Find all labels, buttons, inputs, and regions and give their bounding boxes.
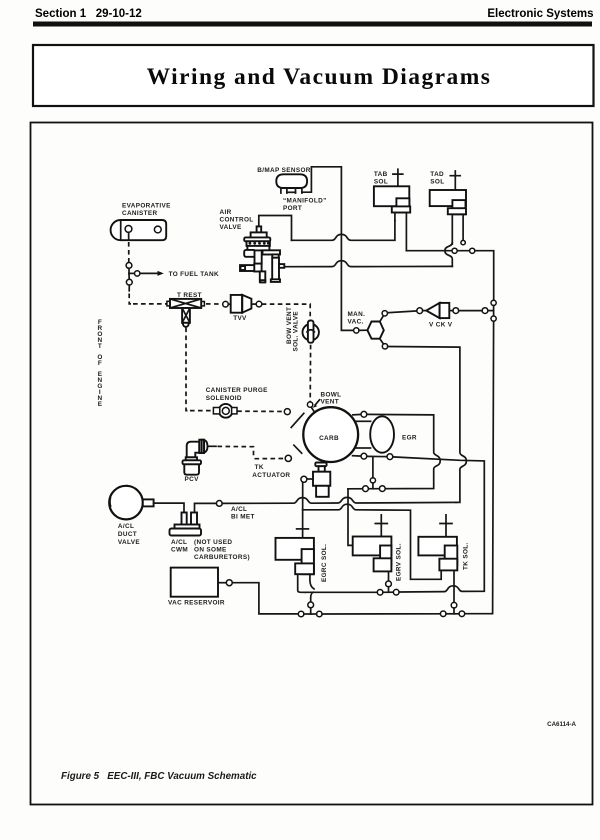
svg-text:TAB: TAB — [374, 171, 388, 178]
wire vckv node to bus node — [459, 310, 482, 312]
node circle reservoir — [226, 580, 232, 586]
wire cwm right prong to a/cl bi met line with hops — [195, 503, 217, 512]
svg-text:ON SOME: ON SOME — [194, 547, 227, 554]
v ck v check valve — [423, 303, 450, 318]
wire vckv to node — [449, 310, 453, 312]
wire node to tee — [128, 268, 130, 273]
wire egr bottom line to right corner down — [393, 457, 485, 591]
svg-text:ACTUATOR: ACTUATOR — [252, 472, 290, 479]
bottom bus segment 3 — [446, 613, 459, 615]
wire carb top line to right with corner down and hop — [348, 414, 440, 488]
wire tee to node — [128, 273, 130, 279]
wire bowl vent node to carb — [311, 407, 315, 412]
svg-text:A/CL: A/CL — [171, 539, 187, 546]
svg-text:TO FUEL TANK: TO FUEL TANK — [169, 271, 219, 278]
wire tk actuator left port — [307, 478, 313, 480]
node circle on tad pipe — [461, 240, 465, 244]
right bus long vertical down — [465, 321, 494, 614]
carb to egr connector bottom — [356, 447, 370, 449]
node circle on tad junction left — [452, 248, 457, 253]
node circle below tee — [126, 279, 132, 285]
svg-text:PCV: PCV — [185, 476, 200, 483]
node circle carb upper port — [284, 409, 290, 415]
node circle hexagon left — [354, 328, 359, 333]
vac reservoir — [171, 568, 218, 597]
tad solenoid — [430, 190, 466, 244]
svg-text:DUCT: DUCT — [118, 531, 137, 538]
svg-text:TVV: TVV — [233, 315, 247, 322]
tk actuator — [313, 463, 330, 497]
bottom bus segment 2 — [311, 613, 317, 615]
wire reservoir to bottom bus — [232, 583, 297, 614]
wire hexagon bottom node right then down to a/cl line — [388, 347, 467, 503]
a/cl cwm — [170, 513, 202, 536]
label bow vent sol valve (vertical) — [286, 307, 300, 352]
node circle vckv right — [453, 308, 459, 314]
tk solenoid — [418, 537, 457, 603]
svg-text:VALVE: VALVE — [220, 224, 242, 231]
carb to egr connector top — [356, 420, 370, 422]
svg-text:PORT: PORT — [283, 205, 302, 212]
wire reservoir stub — [218, 582, 226, 584]
node circle carb bottom-right — [361, 453, 367, 459]
wire node down — [128, 285, 130, 291]
pcv valve — [183, 440, 208, 475]
wire hexagon top node to vckv node — [388, 311, 417, 313]
node circle a/cl bi met — [216, 501, 222, 507]
egrv sol cross — [375, 515, 387, 537]
node circle w590 right of egrv pipe — [393, 589, 399, 595]
wire acv top to tab solenoid — [259, 216, 292, 241]
evaporative canister — [111, 220, 167, 240]
hexagon stub to bottom node — [380, 339, 384, 344]
egr valve ellipse — [370, 416, 394, 452]
svg-text:VAC RESERVOIR: VAC RESERVOIR — [168, 600, 225, 607]
wire egrc node to bus — [310, 608, 312, 614]
b/map sensor — [276, 174, 307, 193]
node circle tk pipe — [451, 602, 457, 608]
egrc wire to bottom bus — [311, 592, 313, 602]
dashed wire down to corner — [129, 294, 131, 304]
dashed wire corner to purge solenoid — [190, 410, 213, 412]
svg-text:A/CL: A/CL — [118, 523, 134, 530]
w590 segment at egrv — [383, 591, 394, 593]
wire b/map sensor to manifold node — [302, 167, 354, 331]
svg-text:BOWL: BOWL — [321, 391, 342, 398]
svg-text:SOL. VALVE: SOL. VALVE — [293, 311, 300, 352]
bottom bus segment — [304, 613, 311, 615]
svg-text:CANISTER PURGE: CANISTER PURGE — [206, 387, 268, 394]
diagram outer frame — [31, 123, 593, 805]
svg-text:CWM: CWM — [171, 547, 188, 554]
node circle carb lower port — [285, 455, 291, 461]
node circle before bus — [482, 308, 488, 314]
bow vent solenoid valve — [303, 321, 319, 343]
dashed wire bow vent valve to carb bowl vent — [309, 345, 311, 402]
svg-text:E: E — [98, 401, 103, 408]
svg-text:EGRV SOL.: EGRV SOL. — [395, 543, 402, 581]
dashed wire tvv to bow vent valve — [262, 304, 310, 319]
wire duct valve to cwm left prong — [154, 503, 184, 512]
egrc solenoid — [276, 538, 315, 592]
node circle hexagon top — [382, 311, 387, 316]
carb lower port tick — [294, 445, 302, 453]
svg-text:TK: TK — [255, 464, 264, 471]
header thick bar — [33, 22, 592, 27]
wire acv right outlet to tad with hop — [284, 261, 452, 267]
dashed wire corner to carb lower port — [255, 458, 285, 460]
svg-text:VENT: VENT — [321, 399, 339, 406]
node circle bowl vent — [307, 402, 312, 407]
node circle hexagon bottom — [382, 344, 387, 349]
tad left pipe hop over wire — [445, 243, 452, 267]
svg-text:EVAPORATIVE: EVAPORATIVE — [122, 203, 171, 210]
dashed wire t-rest to tvv — [206, 303, 222, 305]
bottom bus right node circle — [317, 611, 323, 617]
dashed wire t-rest down to purge solenoid — [186, 328, 188, 411]
node circle tk actuator port — [301, 476, 307, 482]
svg-text:SOL: SOL — [374, 178, 388, 185]
right bus upper node circle — [491, 300, 496, 305]
node circle egrv pipe — [386, 581, 392, 587]
svg-text:B/MAP SENSOR: B/MAP SENSOR — [257, 167, 310, 174]
wire egrv node to w590 — [388, 587, 390, 592]
svg-text:CONTROL: CONTROL — [220, 217, 254, 224]
svg-text:V CK V: V CK V — [429, 321, 453, 328]
svg-text:“MANIFOLD”: “MANIFOLD” — [283, 197, 327, 204]
wire acv top run with hop over bmap line — [292, 221, 395, 241]
svg-text:EGR: EGR — [402, 434, 417, 441]
svg-text:CA6114-A: CA6114-A — [547, 721, 576, 728]
svg-text:F: F — [98, 360, 102, 367]
node circle carb top-right — [361, 411, 367, 417]
wire carb bottom-right port — [353, 455, 361, 457]
node circle w590 left of egrv pipe — [377, 590, 383, 596]
svg-text:VAC.: VAC. — [348, 319, 364, 326]
svg-text:Figure 5 EEC-III, FBC Vacuum: Figure 5 EEC-III, FBC Vacuum Schematic — [61, 771, 257, 782]
bottom bus long segment — [322, 613, 440, 615]
hexagon stub to top node — [380, 316, 383, 322]
svg-text:CARB: CARB — [319, 435, 339, 442]
bottom bus node circle right of tk pipe — [459, 611, 465, 617]
node circle on tee — [135, 271, 140, 276]
right bus vertical — [493, 306, 495, 316]
wire junction node to tee — [372, 483, 374, 489]
svg-text:EGRC SOL.: EGRC SOL. — [321, 544, 328, 582]
svg-text:VALVE: VALVE — [118, 539, 140, 546]
w590 line egrc to corner up right with hop over tk pipe — [305, 586, 484, 593]
a/cl bi met line to man vac corner with hops — [222, 497, 456, 503]
a/cl duct valve — [109, 486, 153, 520]
node circle — [126, 263, 132, 269]
dashed wire below canister — [128, 242, 130, 262]
node circle on tad junction right — [470, 248, 475, 253]
wire from canister down — [128, 232, 130, 240]
wire carb top-right port — [353, 413, 361, 415]
svg-text:(NOT USED: (NOT USED — [194, 539, 232, 546]
node circle egr bottom — [387, 454, 393, 460]
svg-text:TAD: TAD — [430, 171, 444, 178]
bottom bus node circle left of tk pipe — [440, 611, 446, 617]
canister port circle right — [154, 226, 161, 233]
svg-text:A/CL: A/CL — [231, 506, 247, 513]
svg-text:CARBURETORS): CARBURETORS) — [194, 554, 250, 561]
wire pcv nose — [208, 445, 217, 447]
wire carb bottom node down to junction — [372, 457, 374, 478]
carburetor circle — [303, 407, 358, 462]
node circle junction right — [379, 486, 385, 492]
svg-text:CANISTER: CANISTER — [122, 210, 157, 217]
tee wire to fuel tank arrow — [129, 271, 164, 276]
T REST valve — [167, 299, 205, 327]
man vac hexagon — [367, 322, 383, 339]
dashed wire pcv to corner — [218, 446, 254, 456]
canister port circle left — [125, 226, 132, 233]
bowl vent arrow — [315, 400, 319, 405]
wire carb bottom line to egr bottom node — [367, 455, 387, 457]
egrc stem wire up to tk actuator node — [302, 482, 304, 538]
canister purge solenoid — [213, 404, 237, 418]
air control valve — [240, 226, 284, 282]
dashed wire purge solenoid to carb upper port — [237, 410, 284, 412]
tk sol cross — [440, 515, 452, 537]
svg-text:Wiring and Vacuum Diagrams: Wiring and Vacuum Diagrams — [147, 64, 492, 90]
carb upper port tick — [291, 413, 304, 427]
egrc sol cross — [297, 528, 309, 530]
egrv solenoid — [353, 537, 392, 582]
tab solenoid cross — [393, 169, 403, 186]
wire tk node to bus — [453, 608, 455, 614]
svg-text:SOLENOID: SOLENOID — [206, 395, 242, 402]
tab solenoid — [374, 186, 410, 250]
svg-text:AIR: AIR — [220, 209, 232, 216]
node circle tvv left — [223, 301, 229, 307]
svg-text:SOL: SOL — [430, 178, 444, 185]
svg-text:BI MET: BI MET — [231, 514, 255, 521]
line2 from egrc stem to tk sol with hop — [303, 504, 442, 579]
right bus lower node circle — [491, 316, 496, 321]
TVV valve — [228, 295, 256, 313]
title box — [33, 45, 594, 106]
node circle junction left — [363, 486, 369, 492]
wire junction corner down to egrv side port — [348, 489, 353, 546]
wire node to hexagon — [359, 329, 367, 331]
node circle junction upper — [370, 478, 375, 483]
svg-text:TK SOL.: TK SOL. — [462, 542, 469, 570]
node circle tvv right — [256, 301, 262, 307]
label front of engine (vertical) — [97, 319, 102, 408]
svg-text:Electronic Systems: Electronic Systems — [487, 8, 593, 20]
svg-text:Section 1 29-10-12: Section 1 29-10-12 — [35, 8, 142, 20]
dashed wire corner to t-rest — [133, 303, 167, 305]
node circle vckv left — [417, 308, 423, 314]
tad solenoid cross — [450, 171, 460, 190]
wire tab right pipe to right bus — [406, 251, 493, 303]
svg-text:MAN.: MAN. — [348, 311, 366, 318]
bottom bus left node circle — [298, 611, 304, 617]
wire node to bus — [488, 310, 494, 312]
svg-text:T: T — [98, 343, 102, 350]
node circle egrc pipe — [308, 602, 314, 608]
